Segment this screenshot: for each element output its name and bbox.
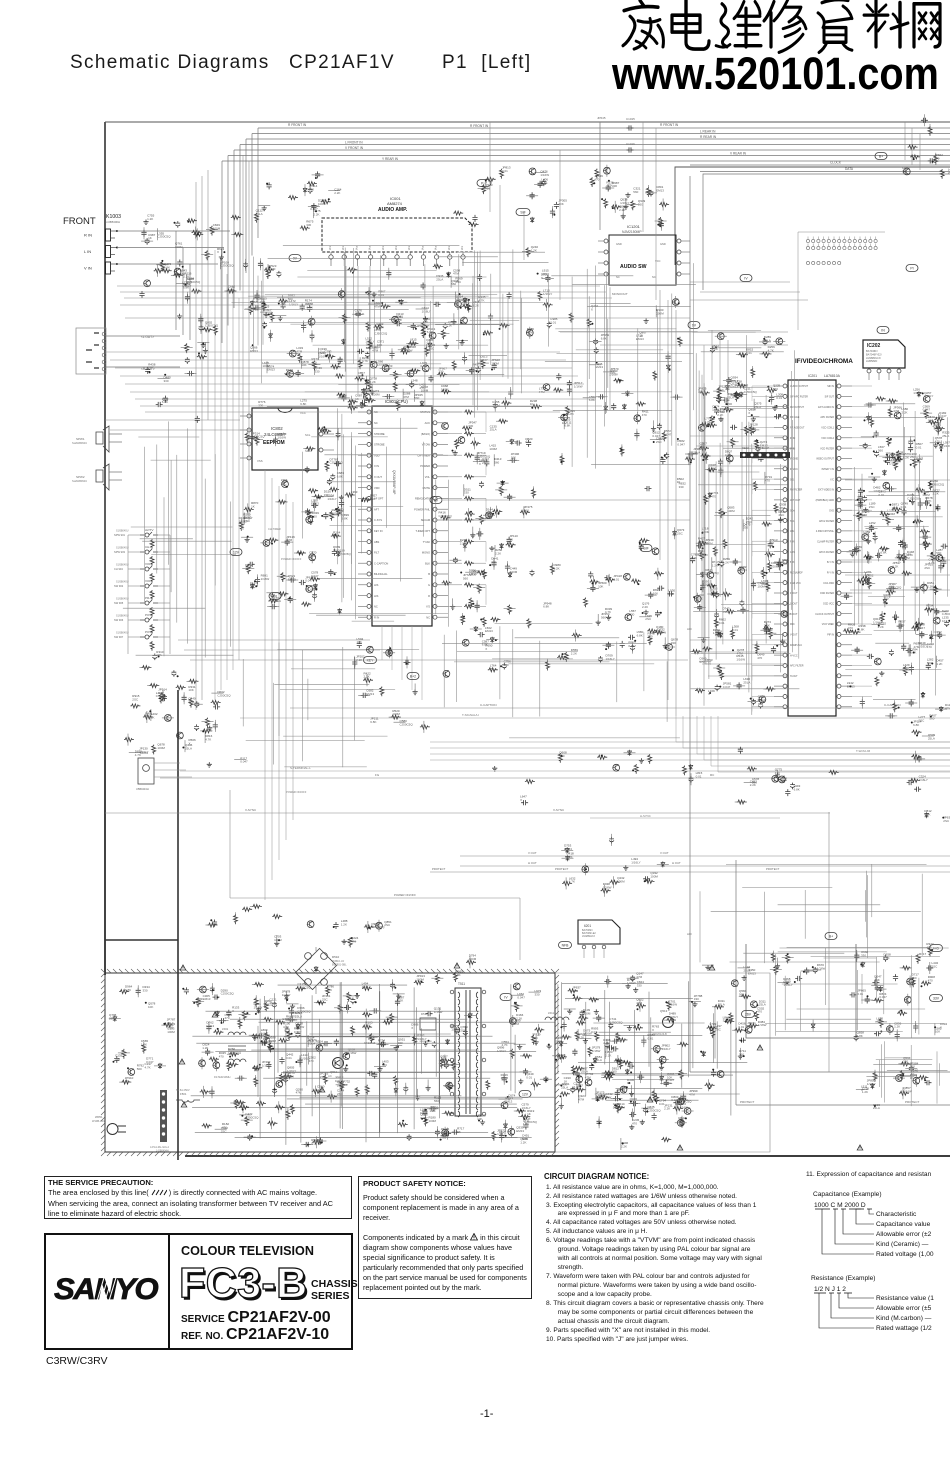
svg-text:47M: 47M	[636, 975, 642, 979]
svg-text:560: 560	[862, 513, 867, 517]
svg-text:6.8K: 6.8K	[307, 305, 313, 309]
svg-text:330: 330	[468, 424, 473, 428]
svg-text:CJ50C5Q: CJ50C5Q	[374, 332, 388, 336]
svg-text:100M: 100M	[451, 1028, 459, 1032]
svg-text:1/16LY: 1/16LY	[522, 1106, 531, 1110]
svg-text:25LA: 25LA	[490, 667, 497, 671]
svg-text:FILT: FILT	[374, 551, 380, 555]
svg-text:10K: 10K	[423, 320, 428, 324]
svg-text:Kind (M.carbon) —: Kind (M.carbon) —	[876, 1315, 932, 1322]
svg-text:SW 902: SW 902	[114, 584, 124, 588]
svg-text:100M: 100M	[274, 938, 282, 942]
svg-text:4.7K: 4.7K	[228, 288, 234, 292]
svg-text:CJ50C5Q: CJ50C5Q	[647, 1109, 661, 1113]
svg-text:SECAM: SECAM	[421, 518, 430, 522]
svg-text:0.047: 0.047	[517, 996, 525, 1000]
svg-text:2SC: 2SC	[221, 1130, 228, 1134]
svg-text:330: 330	[694, 997, 699, 1001]
svg-text:100M: 100M	[268, 267, 276, 271]
svg-text:S1/5B04SU: S1/5B04SU	[116, 598, 129, 601]
IC1201 NJM2150MP AUDIO SW	[598, 224, 690, 285]
svg-text:2SC: 2SC	[148, 366, 155, 370]
svg-text:FILTER/10MH: FILTER/10MH	[214, 1075, 231, 1079]
svg-text:0.01: 0.01	[916, 445, 922, 449]
circuit cluster: audio amp periphery	[338, 265, 469, 411]
svg-text:L IN: L IN	[84, 249, 91, 254]
svg-text:25LA: 25LA	[928, 736, 935, 740]
svg-text:GND: GND	[616, 242, 622, 246]
svg-text:T2.5A 250V: T2.5A 250V	[176, 1088, 190, 1092]
svg-text:100M: 100M	[510, 570, 518, 574]
svg-text:1K: 1K	[564, 1080, 568, 1084]
svg-text:47M: 47M	[914, 645, 920, 649]
svg-text:1/16LY: 1/16LY	[873, 620, 882, 624]
svg-text:2SC: 2SC	[718, 388, 725, 392]
svg-text:BLK: BLK	[425, 561, 430, 565]
wire: V OUT / H OUT lines	[430, 851, 950, 872]
svg-text:0.047: 0.047	[918, 626, 926, 630]
svg-text:CH+: CH+	[145, 545, 151, 549]
net tag 33V	[930, 995, 943, 1002]
svg-text:2.2K: 2.2K	[606, 1096, 612, 1100]
svg-text:330: 330	[438, 370, 443, 374]
wire: A/D vertical	[687, 176, 950, 1072]
svg-text:2.2K: 2.2K	[495, 551, 501, 555]
svg-text:AUDIO AMP.: AUDIO AMP.	[378, 207, 408, 213]
svg-text:EM13: EM13	[267, 368, 275, 372]
svg-text:12V: 12V	[522, 1093, 529, 1097]
svg-text:AM8274: AM8274	[387, 201, 403, 206]
svg-text:1/16W: 1/16W	[262, 1063, 271, 1067]
svg-text:25LA: 25LA	[744, 968, 751, 972]
svg-text:4.7K: 4.7K	[606, 184, 612, 188]
svg-text:NC: NC	[652, 275, 656, 279]
svg-text:560: 560	[370, 497, 375, 501]
regulator Q513	[652, 1009, 674, 1036]
svg-text:1.2K: 1.2K	[473, 304, 479, 308]
circuit cluster: audio output block parts	[755, 942, 948, 1042]
svg-text:560: 560	[927, 661, 932, 665]
svg-text:WP01: WP01	[95, 1115, 103, 1119]
svg-text:APC3 FILTER: APC3 FILTER	[819, 551, 834, 554]
calligraphy char 资	[818, 0, 852, 52]
svg-text:0.01: 0.01	[857, 992, 863, 996]
calligraphy char 料	[864, 0, 908, 46]
svg-text:1/16W: 1/16W	[926, 607, 935, 611]
svg-text:470: 470	[775, 771, 780, 775]
circuit cluster: cpu leftextra	[244, 426, 358, 589]
svg-text:Rated voltage (1,00: Rated voltage (1,00	[876, 1251, 934, 1258]
svg-text:100M: 100M	[392, 712, 400, 716]
svg-text:10K: 10K	[188, 688, 193, 692]
svg-text:Y/S: Y/S	[426, 605, 430, 609]
svg-text:1K: 1K	[457, 1130, 461, 1134]
svg-text:470: 470	[928, 979, 933, 983]
svg-text:EM13: EM13	[739, 568, 747, 572]
svg-text:6.8K: 6.8K	[427, 330, 433, 334]
svg-text:X: X	[747, 1025, 749, 1029]
circuit cluster: sync transistor row	[492, 750, 703, 806]
svg-text:25LA: 25LA	[274, 599, 281, 603]
circuit cluster: deflection corner parts	[856, 1056, 932, 1110]
svg-text:100M: 100M	[491, 362, 499, 366]
jack V IN	[106, 262, 111, 274]
circuit cluster: standby/power key area	[129, 650, 248, 767]
svg-text:S1/5B04SU: S1/5B04SU	[116, 615, 129, 618]
svg-text:6.8K: 6.8K	[420, 364, 426, 368]
svg-text:25LA: 25LA	[764, 338, 771, 342]
wire bus: top audio/video input buses	[222, 123, 950, 343]
svg-text:2.2K: 2.2K	[603, 1041, 609, 1045]
svg-text:B+: B+	[879, 155, 883, 159]
svg-text:100M: 100M	[262, 364, 270, 368]
svg-text:Vcc: Vcc	[460, 245, 464, 250]
op-amp IC001 AM8274 AUDIO AMP	[322, 196, 472, 266]
svg-text:NC: NC	[374, 421, 378, 425]
svg-text:SPW 901: SPW 901	[114, 533, 126, 537]
svg-text:IV: IV	[504, 996, 508, 1000]
svg-text:GND: GND	[660, 242, 666, 246]
svg-text:470: 470	[245, 566, 250, 570]
svg-text:CLOCK OUTPUT: CLOCK OUTPUT	[815, 613, 834, 616]
svg-text:0.01: 0.01	[705, 662, 711, 666]
wire: PROTECT bottom line	[736, 860, 950, 1105]
svg-text:1/16LY: 1/16LY	[139, 750, 148, 754]
svg-text:1/16W: 1/16W	[592, 1049, 601, 1053]
wire bundle: CPU bottom drops	[382, 626, 422, 700]
svg-text:B-Y IN: B-Y IN	[827, 561, 834, 564]
svg-text:EM13: EM13	[564, 847, 572, 851]
net tag 9V	[688, 322, 700, 329]
svg-text:CLAMP FILTER: CLAMP FILTER	[817, 541, 834, 544]
wire mesh: power secondary routing	[562, 981, 748, 1115]
svg-text:2SC: 2SC	[384, 923, 391, 927]
svg-text:Capacitance value: Capacitance value	[876, 1221, 931, 1228]
svg-text:IC202: IC202	[867, 343, 881, 349]
svg-text:EM13: EM13	[595, 365, 603, 369]
svg-text:6.8K: 6.8K	[370, 720, 376, 724]
svg-text:V OUT: V OUT	[660, 851, 669, 855]
svg-text:AFT OUT: AFT OUT	[790, 499, 801, 502]
svg-text:6.8K: 6.8K	[794, 787, 800, 791]
svg-text:SPW2: SPW2	[76, 475, 85, 479]
svg-text:100M: 100M	[492, 404, 500, 408]
svg-text:FM OUTPUT: FM OUTPUT	[790, 406, 804, 409]
svg-text:1/16W: 1/16W	[434, 1010, 443, 1014]
circuit cluster: jack mid parts	[145, 342, 209, 423]
svg-text:0.047: 0.047	[652, 434, 660, 438]
svg-text:X: X	[351, 493, 353, 497]
svg-text:Vcc: Vcc	[407, 245, 411, 250]
remote control sensor A1001	[136, 751, 192, 791]
svg-text:Rated wattage (1/2: Rated wattage (1/2	[876, 1325, 932, 1332]
svg-text:1/16W: 1/16W	[254, 1005, 263, 1009]
svg-text:1/16W: 1/16W	[657, 631, 666, 635]
svg-text:1/16W: 1/16W	[282, 993, 291, 997]
svg-text:2SC: 2SC	[746, 520, 753, 524]
svg-text:470: 470	[560, 754, 565, 758]
svg-text:1.2K: 1.2K	[892, 565, 898, 569]
svg-text:2.2K: 2.2K	[370, 380, 376, 384]
svg-text:1/16W: 1/16W	[758, 1023, 767, 1027]
svg-text:470: 470	[642, 413, 647, 417]
connector pin grid CN201	[798, 232, 885, 330]
wire: right block frame	[746, 812, 950, 1072]
wire mesh: audio sw routing	[545, 263, 698, 469]
svg-text:KEY: KEY	[367, 659, 375, 663]
svg-text:0.047: 0.047	[628, 644, 636, 648]
svg-text:10K: 10K	[148, 1005, 153, 1009]
svg-text:X IN: X IN	[374, 464, 379, 468]
svg-text:1.2K: 1.2K	[531, 248, 537, 252]
svg-text:47M: 47M	[636, 1001, 642, 1005]
svg-text:R-Y IN: R-Y IN	[827, 572, 834, 575]
svg-text:330: 330	[143, 989, 148, 993]
svg-text:47M: 47M	[578, 1098, 584, 1102]
svg-text:10K: 10K	[263, 1037, 268, 1041]
svg-text:2.2K: 2.2K	[334, 191, 340, 195]
svg-text:0.01: 0.01	[550, 320, 556, 324]
svg-text:REMO/DATA: REMO/DATA	[415, 497, 430, 501]
svg-text:25LA: 25LA	[759, 1003, 766, 1007]
svg-text:6.8K: 6.8K	[857, 1034, 863, 1038]
net tag AV	[875, 153, 887, 160]
svg-text:EM13: EM13	[250, 349, 258, 353]
svg-text:47M: 47M	[188, 700, 194, 704]
wire fan: jungle right pin connections	[852, 386, 872, 697]
svg-text:JP645: JP645	[597, 116, 606, 120]
svg-text:6.8K: 6.8K	[568, 412, 574, 416]
svg-text:1.2K: 1.2K	[712, 564, 718, 568]
svg-text:47M: 47M	[945, 707, 950, 711]
svg-text:X: X	[691, 455, 693, 459]
svg-text:NFB: NFB	[562, 944, 570, 948]
svg-text:AC: AC	[328, 1074, 332, 1078]
schematic top border wire	[105, 121, 950, 123]
svg-text:1/16LY: 1/16LY	[182, 284, 191, 288]
svg-text:0.047: 0.047	[723, 685, 731, 689]
net tag 185V	[825, 933, 837, 940]
wire: front jack feeds	[117, 231, 230, 340]
svg-text:4.7K: 4.7K	[569, 880, 575, 884]
svg-text:1/16W: 1/16W	[627, 981, 636, 985]
svg-text:X: X	[479, 462, 481, 466]
svg-text:47M: 47M	[378, 1042, 384, 1046]
svg-text:EM13: EM13	[203, 997, 211, 1001]
warning triangles in power area	[179, 963, 863, 1150]
svg-text:6201: 6201	[584, 924, 591, 928]
svg-text:VCC: VCC	[300, 411, 306, 415]
svg-text:1/16LY: 1/16LY	[543, 292, 552, 296]
svg-text:1.2K: 1.2K	[554, 566, 560, 570]
svg-text:1/16LY: 1/16LY	[355, 312, 364, 316]
circuit cluster: front top small	[254, 171, 341, 230]
svg-text:100M: 100M	[922, 493, 930, 497]
svg-text:Vcc: Vcc	[368, 245, 372, 250]
svg-text:1.2K: 1.2K	[141, 1043, 147, 1047]
wire mesh: corner routing	[866, 1041, 947, 1106]
net tag 5V2	[269, 593, 281, 600]
wire: V-SYNC line	[105, 808, 830, 818]
svg-text:EM13: EM13	[311, 502, 319, 506]
svg-text:IF/VIDEO/CHROMA: IF/VIDEO/CHROMA	[795, 358, 853, 365]
svg-text:A/D: A/D	[687, 932, 692, 936]
svg-text:T-SIGNAL/H: T-SIGNAL/H	[462, 713, 479, 717]
text SERVICE / REF NO	[181, 1309, 331, 1327]
svg-text:1/16LY: 1/16LY	[316, 1043, 325, 1047]
svg-text:Vcc: Vcc	[420, 245, 424, 250]
net tag IV	[740, 275, 752, 282]
svg-text:1/16W: 1/16W	[736, 657, 745, 661]
circuit cluster: power mid parts	[689, 994, 756, 1092]
svg-text:BA7046F/: BA7046F/	[866, 349, 878, 353]
svg-text:C-SYS: C-SYS	[374, 518, 382, 522]
svg-text:1/16W: 1/16W	[867, 1082, 876, 1086]
svg-text:X: X	[189, 742, 191, 746]
svg-text:BILINGUAL: BILINGUAL	[374, 572, 388, 576]
svg-text:470: 470	[757, 1010, 762, 1014]
svg-text:1K: 1K	[639, 334, 643, 338]
svg-text:Resistance (Example): Resistance (Example)	[811, 1275, 876, 1282]
svg-text:FRONT: FRONT	[63, 216, 96, 227]
circuit cluster: speaker amp area	[124, 691, 220, 752]
IC802 24LC08B/P EEPROM	[240, 408, 334, 470]
AC mains hatched isolation border	[101, 969, 559, 1156]
svg-text:330: 330	[324, 493, 329, 497]
svg-text:1.2K: 1.2K	[936, 662, 942, 666]
svg-text:SYD: SYD	[829, 509, 834, 512]
svg-text:1.2K: 1.2K	[898, 623, 904, 627]
svg-text:1/16LY: 1/16LY	[669, 1015, 678, 1019]
svg-text:560: 560	[668, 592, 673, 596]
circuit cluster: jungle left periphery	[690, 381, 784, 708]
svg-text:560: 560	[382, 1063, 387, 1067]
svg-text:1.2K: 1.2K	[924, 813, 930, 817]
svg-text:470: 470	[632, 1122, 637, 1126]
capacitor C1015	[627, 125, 634, 130]
svg-text:25LA: 25LA	[711, 590, 718, 594]
svg-text:R FRONT IN: R FRONT IN	[470, 124, 489, 128]
circuit cluster: cpu right2	[479, 437, 535, 519]
svg-text:25LA: 25LA	[256, 212, 263, 216]
svg-text:POWER ON/OFF: POWER ON/OFF	[281, 557, 302, 561]
svg-text:B+2: B+2	[410, 675, 416, 679]
svg-text:RGB VCC: RGB VCC	[790, 582, 801, 585]
svg-text:6.8K: 6.8K	[543, 605, 549, 609]
SANYO model identification box	[44, 1233, 353, 1350]
svg-text:RC: RC	[710, 773, 715, 777]
svg-text:4.7K: 4.7K	[725, 453, 731, 457]
svg-text:100M: 100M	[429, 1119, 437, 1123]
svg-text:330: 330	[629, 613, 634, 617]
svg-text:330: 330	[535, 993, 540, 997]
svg-text:560: 560	[739, 1052, 744, 1056]
svg-text:VCO COIL2: VCO COIL2	[821, 437, 834, 440]
svg-text:560: 560	[739, 992, 744, 996]
svg-text:APC2 FILTER: APC2 FILTER	[819, 520, 834, 523]
svg-text:H-SYNC: H-SYNC	[640, 814, 651, 818]
svg-text:IC1201: IC1201	[627, 224, 641, 229]
circuit cluster: audio amp extra	[331, 276, 472, 414]
svg-text:H-VCC: H-VCC	[790, 654, 798, 657]
vertical sync block 6201	[578, 920, 620, 958]
inductor L511	[545, 1011, 569, 1020]
svg-text:2SC: 2SC	[428, 347, 435, 351]
svg-text:R REAR IN: R REAR IN	[700, 135, 717, 139]
svg-text:2.2K: 2.2K	[642, 605, 648, 609]
svg-text:330: 330	[637, 983, 642, 987]
connector X10A DF5HHP	[740, 446, 790, 458]
jack L IN	[106, 246, 111, 258]
svg-text:VDD: VDD	[374, 486, 380, 490]
svg-text:470: 470	[934, 157, 939, 161]
svg-text:RAMP ALC: RAMP ALC	[790, 644, 802, 647]
svg-text:1/16W: 1/16W	[596, 1094, 605, 1098]
svg-text:25LA: 25LA	[595, 1058, 602, 1062]
svg-text:TY/AV: TY/AV	[423, 540, 431, 544]
tuner block outline box	[675, 167, 950, 265]
svg-text:2SC: 2SC	[677, 532, 684, 536]
svg-text:560: 560	[332, 511, 337, 515]
svg-text:6.8K: 6.8K	[162, 400, 168, 404]
svg-text:1K: 1K	[698, 390, 702, 394]
svg-text:1K: 1K	[677, 480, 681, 484]
svg-text:470: 470	[291, 1015, 296, 1019]
svg-text:CJ50C5Q: CJ50C5Q	[439, 514, 453, 518]
svg-text:25LA: 25LA	[718, 1003, 725, 1007]
svg-text:330: 330	[782, 561, 787, 565]
net tag P-P	[477, 180, 491, 187]
svg-text:47M: 47M	[876, 1020, 882, 1024]
svg-text:47M: 47M	[698, 540, 704, 544]
svg-text:EXT VIDEO IN: EXT VIDEO IN	[818, 489, 834, 492]
svg-text:SHANB0934: SHANB0934	[72, 441, 87, 445]
svg-text:2SC: 2SC	[365, 1024, 372, 1028]
svg-text:FILT(A)PDF: FILT(A)PDF	[790, 572, 803, 575]
svg-text:0.047: 0.047	[294, 1030, 302, 1034]
circuit cluster: audio mute area	[466, 245, 558, 412]
jumper JP645	[599, 122, 601, 230]
svg-text:1.2K: 1.2K	[894, 1025, 900, 1029]
svg-text:0.047: 0.047	[879, 995, 887, 999]
svg-text:Q513: Q513	[660, 1009, 668, 1013]
svg-text:2SC: 2SC	[656, 440, 663, 444]
svg-text:6.8K: 6.8K	[858, 628, 864, 632]
net tag IN	[877, 327, 889, 334]
svg-text:100M: 100M	[416, 978, 424, 982]
circuit cluster: top extra	[453, 165, 610, 227]
svg-text:2.2K: 2.2K	[364, 675, 370, 679]
circuit cluster: secondary rect parts	[492, 983, 552, 1144]
svg-text:1/16W: 1/16W	[903, 1089, 912, 1093]
svg-text:DF5HHP: DF5HHP	[758, 446, 769, 450]
svg-text:V IN: V IN	[84, 266, 92, 271]
svg-text:1K: 1K	[125, 1079, 129, 1083]
circuit cluster: h-v out drive	[561, 834, 669, 897]
wire mesh: audio input routing	[232, 245, 538, 406]
svg-text:2SC: 2SC	[932, 965, 939, 969]
circuit cluster: secondary reg parts	[555, 972, 698, 1108]
IC202 video chroma aux	[863, 340, 905, 380]
svg-text:4.7K: 4.7K	[502, 1043, 508, 1047]
svg-text:X: X	[520, 798, 522, 802]
svg-text:2.2K: 2.2K	[605, 1053, 611, 1057]
svg-text:10K: 10K	[511, 455, 516, 459]
svg-text:560: 560	[463, 576, 468, 580]
main vertical trunk wire x178	[177, 690, 179, 1160]
calligraphy char 维	[716, 2, 761, 48]
svg-text:2SC: 2SC	[645, 617, 652, 621]
